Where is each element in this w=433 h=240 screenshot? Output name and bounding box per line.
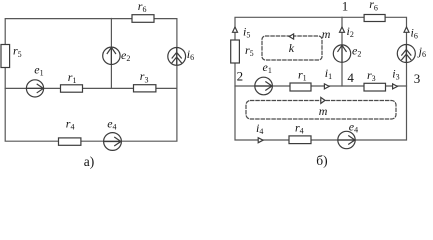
current source j6 (b) xyxy=(397,45,415,63)
resistor r1 (b) xyxy=(290,83,311,91)
svg-text:m: m xyxy=(322,27,331,41)
svg-text:i4: i4 xyxy=(256,121,263,136)
label e1 (a) xyxy=(34,63,43,78)
label r5 (a) xyxy=(13,44,22,59)
label r3 (b) xyxy=(367,68,376,83)
label i6 (b) xyxy=(411,26,418,41)
svg-text:r6: r6 xyxy=(369,0,378,12)
resistor r3 (a) xyxy=(134,85,156,92)
wire: outer loop b xyxy=(235,17,407,140)
label r1 (b) xyxy=(298,68,307,83)
svg-text:r3: r3 xyxy=(140,69,149,84)
label r6 (a) xyxy=(138,0,147,14)
loop m direction arrow xyxy=(321,97,325,103)
svg-text:r3: r3 xyxy=(367,68,376,83)
label r1 (a) xyxy=(68,70,77,85)
resistor r6 (a) xyxy=(132,15,154,23)
svg-text:4: 4 xyxy=(347,70,354,85)
svg-text:r4: r4 xyxy=(295,120,304,135)
svg-text:1: 1 xyxy=(342,0,349,14)
svg-text:i5: i5 xyxy=(243,24,250,39)
caption b) xyxy=(316,153,327,168)
label r5 (b) xyxy=(245,43,254,58)
current arrow i6 xyxy=(404,27,409,32)
svg-text:m: m xyxy=(319,104,328,118)
label i3 xyxy=(392,66,399,81)
label i2 xyxy=(347,24,354,39)
current source i6 (a) xyxy=(168,48,186,66)
resistor r3 (b) xyxy=(364,83,386,91)
svg-text:r1: r1 xyxy=(68,70,77,85)
label r3 (a) xyxy=(140,69,149,84)
node 2 xyxy=(237,68,244,83)
label i1 xyxy=(325,66,332,81)
wire: branch node1 to node4 (e2 branch) xyxy=(341,17,343,86)
resistor r5 (a) xyxy=(1,45,10,68)
loop k direction arrow xyxy=(289,34,293,39)
label e2 (b) xyxy=(352,44,361,59)
node 1 xyxy=(342,0,349,14)
resistor r6 (b) xyxy=(364,15,385,22)
svg-text:e2: e2 xyxy=(352,44,361,59)
label e2 (a) xyxy=(121,48,130,63)
svg-text:r1: r1 xyxy=(298,68,307,83)
current arrow i2 xyxy=(340,27,345,32)
label i6 (a) xyxy=(187,47,194,62)
resistor r1 (a) xyxy=(61,85,83,92)
current arrow i5 xyxy=(233,27,238,32)
svg-text:а): а) xyxy=(84,154,95,169)
label e4 (b) xyxy=(349,120,358,135)
EMF source e1 (a) xyxy=(26,80,43,97)
svg-text:3: 3 xyxy=(414,71,421,86)
label r6 (b) xyxy=(369,0,378,12)
resistor r4 (a) xyxy=(59,138,81,145)
resistor r5 (b) xyxy=(231,40,240,63)
label i5 xyxy=(243,24,250,39)
svg-text:i6: i6 xyxy=(411,26,418,41)
label m (top) xyxy=(322,27,331,41)
EMF source e4 (a) xyxy=(104,133,122,151)
label e4 (a) xyxy=(107,117,116,132)
EMF source e2 (a) xyxy=(103,47,120,64)
svg-text:i3: i3 xyxy=(392,66,399,81)
resistor r4 (b) xyxy=(289,136,311,144)
wire: middle horizontal a xyxy=(5,87,177,89)
svg-text:r6: r6 xyxy=(138,0,147,14)
EMF source e2 (b) xyxy=(333,45,350,62)
caption a) xyxy=(84,154,95,169)
svg-text:k: k xyxy=(289,41,295,55)
label r4 (b) xyxy=(295,120,304,135)
svg-text:r5: r5 xyxy=(13,44,22,59)
wire: outer loop a xyxy=(5,19,177,142)
wire: middle vertical branch a xyxy=(110,19,112,89)
svg-text:i6: i6 xyxy=(187,47,194,62)
svg-text:j6: j6 xyxy=(417,44,426,59)
svg-text:r5: r5 xyxy=(245,43,254,58)
current arrow i1 xyxy=(324,84,329,89)
EMF source e4 (b) xyxy=(338,131,355,148)
svg-text:б): б) xyxy=(316,153,327,168)
label k xyxy=(289,41,295,55)
node 4 xyxy=(347,70,354,85)
label e1 (b) xyxy=(263,60,272,75)
EMF source e1 (b) xyxy=(255,77,273,95)
svg-text:e4: e4 xyxy=(349,120,358,135)
node 3 xyxy=(414,71,421,86)
label j6 (b) xyxy=(417,44,426,59)
current arrow i4 xyxy=(258,138,263,143)
svg-text:r4: r4 xyxy=(66,117,75,132)
label r4 (a) xyxy=(66,117,75,132)
current arrow i3 xyxy=(393,84,398,89)
dashed loop m xyxy=(246,101,396,120)
svg-text:i2: i2 xyxy=(347,24,354,39)
svg-text:e1: e1 xyxy=(34,63,43,78)
dashed loop k xyxy=(262,36,322,60)
svg-text:2: 2 xyxy=(237,68,244,83)
svg-text:e4: e4 xyxy=(107,117,116,132)
wire: middle horizontal b xyxy=(235,85,407,87)
svg-text:i1: i1 xyxy=(325,66,332,81)
label i4 xyxy=(256,121,263,136)
svg-text:e1: e1 xyxy=(263,60,272,75)
label m (middle loop) xyxy=(319,104,328,118)
svg-text:e2: e2 xyxy=(121,48,130,63)
